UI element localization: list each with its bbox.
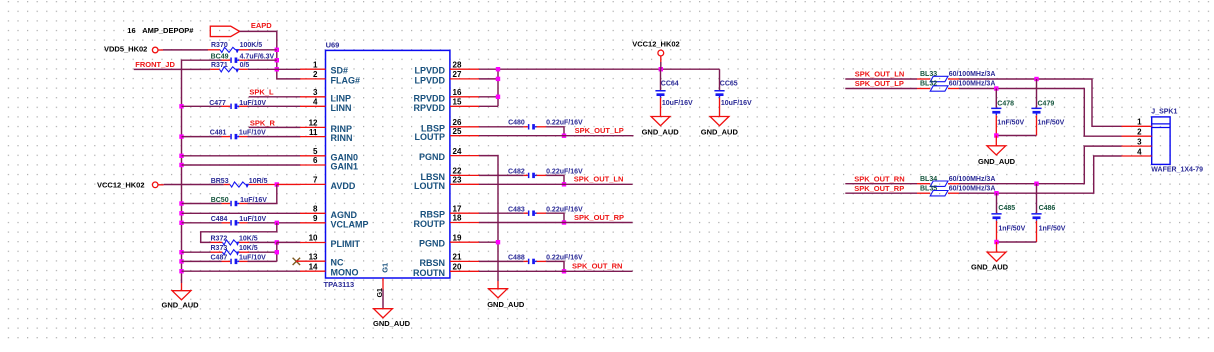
resistor R370 100K/5 xyxy=(208,42,262,53)
no-connect X on pin13 NC xyxy=(293,258,301,265)
svg-text:0/5: 0/5 xyxy=(240,62,250,69)
svg-text:20: 20 xyxy=(453,263,462,272)
GND bus vertical wire xyxy=(182,60,222,291)
svg-text:SD#: SD# xyxy=(331,66,349,76)
wire BL34 to connector pin3 xyxy=(959,146,1122,184)
connector pin 3 xyxy=(1122,137,1152,146)
wire R372 to PLIMIT node xyxy=(249,241,276,243)
svg-text:EAPD: EAPD xyxy=(251,21,272,30)
wire BC50 left to GND bus xyxy=(182,203,222,205)
capacitor C482 0.22uF/16V xyxy=(479,168,583,178)
svg-text:C480: C480 xyxy=(508,120,525,127)
wire ROUTN pin20 stub xyxy=(479,270,633,272)
svg-text:BC49: BC49 xyxy=(211,53,229,60)
svg-text:1nF/50V: 1nF/50V xyxy=(1039,225,1066,232)
svg-text:8: 8 xyxy=(313,205,318,214)
svg-text:GND_AUD: GND_AUD xyxy=(487,300,525,309)
svg-text:1uF/10V: 1uF/10V xyxy=(239,255,266,262)
svg-text:ROUTP: ROUTP xyxy=(414,219,446,229)
junction dots LPVDD rail xyxy=(496,67,663,99)
svg-text:PGND: PGND xyxy=(419,152,446,162)
pin 7 AVDD xyxy=(300,176,356,191)
svg-text:G1: G1 xyxy=(380,263,389,273)
wire LPVDD rail to VCC12 xyxy=(479,69,720,106)
svg-text:60/100MHz/3A: 60/100MHz/3A xyxy=(949,176,996,183)
capacitor C484 1uF/10V xyxy=(211,216,267,225)
junction dot PLIMIT node xyxy=(275,240,279,244)
wire joining C485 C486 bottoms xyxy=(997,241,1037,243)
svg-text:25: 25 xyxy=(453,127,462,136)
capacitor BC50 1uF/16V xyxy=(211,197,268,206)
pin 26 LBSP xyxy=(421,118,479,133)
ferrite bead BL34 60/100MHz/3A xyxy=(917,176,995,186)
wire BL33 to connector pin1 xyxy=(959,79,1122,126)
svg-text:1: 1 xyxy=(1137,118,1142,127)
svg-text:C479: C479 xyxy=(1038,100,1055,107)
wire C477 left to GND bus xyxy=(182,105,222,107)
wire AVDD to pin7 xyxy=(277,183,301,185)
svg-text:3: 3 xyxy=(1137,137,1142,146)
svg-text:60/100MHz/3A: 60/100MHz/3A xyxy=(949,81,996,88)
svg-text:AVDD: AVDD xyxy=(331,181,356,191)
wire SPK_OUT_LP to BL32 xyxy=(845,88,917,90)
svg-text:SPK_OUT_RP: SPK_OUT_RP xyxy=(574,213,624,222)
svg-text:VDD5_HK02: VDD5_HK02 xyxy=(104,44,147,53)
ground GND_AUD under C485 xyxy=(971,252,1009,272)
wire C487 right to PLIMIT vertical xyxy=(248,260,277,262)
svg-text:5: 5 xyxy=(313,147,318,156)
pin 28 LPVDD xyxy=(414,60,479,75)
junction dot C485 ground node xyxy=(994,240,998,244)
svg-text:21: 21 xyxy=(453,253,462,262)
svg-text:18: 18 xyxy=(453,214,462,223)
wire R370 to EAPD bus xyxy=(249,49,277,51)
svg-text:19: 19 xyxy=(453,233,462,242)
pin 18 ROUTP xyxy=(414,214,480,229)
pin 1 SD# xyxy=(300,60,348,75)
svg-text:SPK_OUT_RN: SPK_OUT_RN xyxy=(572,262,622,271)
svg-text:LOUTP: LOUTP xyxy=(415,132,446,142)
junction dot C478 tap xyxy=(994,86,998,90)
pin 9 VCLAMP xyxy=(300,214,369,229)
pin 21 RBSN xyxy=(419,253,479,268)
wire AVDD down to BC50 xyxy=(248,185,277,204)
svg-text:C485: C485 xyxy=(998,205,1015,212)
wire BL35 to connector pin4 xyxy=(959,156,1122,193)
pin 19 PGND xyxy=(419,233,479,248)
svg-text:R372: R372 xyxy=(211,236,228,243)
svg-text:GND_AUD: GND_AUD xyxy=(701,127,739,136)
resistor BR53 10R/5 xyxy=(211,178,277,188)
svg-text:GND_AUD: GND_AUD xyxy=(642,127,680,136)
ground GND_AUD left bus xyxy=(162,291,200,310)
svg-text:LOUTN: LOUTN xyxy=(414,181,445,191)
junction dot C478 ground node xyxy=(994,133,998,137)
junction dot ROUTP xyxy=(562,220,566,224)
svg-text:RPVDD: RPVDD xyxy=(413,93,445,103)
svg-text:SPK_R: SPK_R xyxy=(250,118,276,127)
wire BL32 to connector pin2 xyxy=(959,89,1122,137)
power node VDD5_HK02 xyxy=(104,44,163,53)
junction dot R373 node xyxy=(275,250,279,254)
resistor R372 10K/5 xyxy=(211,236,258,246)
svg-text:10K/5: 10K/5 xyxy=(239,245,258,252)
svg-text:SPK_OUT_RP: SPK_OUT_RP xyxy=(854,184,904,193)
svg-text:16: 16 xyxy=(453,88,462,97)
svg-text:10: 10 xyxy=(309,234,318,243)
capacitor C480 0.22uF/16V xyxy=(479,120,583,130)
wire AGND pin8 to GND bus xyxy=(182,212,301,214)
wire VCLAMP loop down to R372 xyxy=(201,223,277,243)
svg-text:AGND: AGND xyxy=(331,210,358,220)
svg-text:NC: NC xyxy=(331,258,344,268)
wire GAIN1 pin6 to GND bus xyxy=(182,164,301,166)
svg-text:AMP_DEPOP#: AMP_DEPOP# xyxy=(142,26,194,35)
pin 23 LOUTN xyxy=(414,176,479,191)
svg-text:C482: C482 xyxy=(508,168,525,175)
svg-text:LINN: LINN xyxy=(331,103,352,113)
junction dots on EAPD bus xyxy=(275,48,279,72)
svg-text:LPVDD: LPVDD xyxy=(414,75,445,85)
junction dot C486 tap xyxy=(1034,182,1038,186)
svg-text:MONO: MONO xyxy=(331,268,359,278)
ground GND_AUD under CC64 xyxy=(642,117,680,137)
capacitor CC65 10uF/16V xyxy=(714,69,752,116)
svg-text:R373: R373 xyxy=(211,245,228,252)
svg-text:26: 26 xyxy=(453,118,462,127)
svg-text:12: 12 xyxy=(309,119,318,128)
pin 5 GAIN0 xyxy=(300,147,358,162)
svg-text:C481: C481 xyxy=(210,129,227,136)
svg-text:GND_AUD: GND_AUD xyxy=(971,263,1009,272)
svg-text:LINP: LINP xyxy=(331,93,352,103)
pin 25 LOUTP xyxy=(415,127,480,142)
capacitor C477 1uF/10V xyxy=(209,100,266,109)
svg-text:C483: C483 xyxy=(508,206,525,213)
wire R371 to pin1 SD# xyxy=(248,68,301,70)
svg-text:100K/5: 100K/5 xyxy=(240,42,263,49)
pin 6 GAIN1 xyxy=(300,156,358,171)
wire SPK_R to pin12 RINP xyxy=(249,126,301,128)
svg-text:TPA3113: TPA3113 xyxy=(324,280,355,289)
pin 8 AGND xyxy=(300,205,357,220)
svg-text:6: 6 xyxy=(313,156,318,165)
pin 22 LBSN xyxy=(421,167,480,182)
svg-text:CC65: CC65 xyxy=(720,81,738,88)
svg-text:14: 14 xyxy=(309,262,318,271)
capacitor BC49 4.7uF/6.3V xyxy=(211,53,275,63)
wire R373 left to GND bus xyxy=(182,251,211,253)
pin 11 RINN xyxy=(300,128,353,143)
capacitor C485 1nF/50V xyxy=(991,193,1025,242)
wire VCC12 to BR53 xyxy=(164,184,224,186)
svg-text:15: 15 xyxy=(453,98,462,107)
power node VCC12_HK02 top xyxy=(632,39,680,69)
svg-text:GND_AUD: GND_AUD xyxy=(373,319,411,328)
wire C488 to ROUTN net xyxy=(546,261,564,271)
svg-text:3: 3 xyxy=(313,88,318,97)
capacitor C488 0.22uF/16V xyxy=(479,255,583,265)
svg-text:SPK_L: SPK_L xyxy=(249,88,274,97)
svg-text:PLIMIT: PLIMIT xyxy=(331,239,361,249)
svg-text:FRONT_JD: FRONT_JD xyxy=(135,60,175,69)
off-page reference 16 AMP_DEPOP# xyxy=(127,26,194,35)
svg-text:BL34: BL34 xyxy=(920,176,937,183)
svg-text:4: 4 xyxy=(313,98,318,107)
svg-text:BL33: BL33 xyxy=(920,71,937,78)
junction dot AVDD node xyxy=(275,182,279,186)
wire C481 left to GND bus xyxy=(182,136,222,138)
ground GND_AUD under G1 xyxy=(373,309,411,329)
svg-text:RINN: RINN xyxy=(331,133,353,143)
svg-text:PGND: PGND xyxy=(419,239,446,249)
wire net EAPD from flag to pin2 FLAG# xyxy=(240,31,301,79)
pin 27 LPVDD xyxy=(414,70,479,85)
svg-text:4.7uF/6.3V: 4.7uF/6.3V xyxy=(240,53,275,60)
op-amp U69 TPA3113 body xyxy=(324,41,450,290)
wire GAIN0 pin5 to GND bus xyxy=(182,155,301,157)
pin 24 PGND xyxy=(419,147,479,162)
svg-text:VCLAMP: VCLAMP xyxy=(331,219,369,229)
wire C484 left to GND bus xyxy=(182,222,222,224)
connector J_SPK1 WAFER_1X4-79 xyxy=(1151,109,1203,174)
pin 20 ROUTN xyxy=(413,263,479,278)
svg-text:U69: U69 xyxy=(326,41,340,50)
wire C481 right to pin11 RINN xyxy=(248,136,301,138)
junction dot ROUTN xyxy=(562,269,566,273)
wire C487 left to GND bus xyxy=(182,260,222,262)
ferrite bead BL32 60/100MHz/3A xyxy=(917,81,995,92)
svg-text:CC64: CC64 xyxy=(661,81,679,88)
svg-text:LPVDD: LPVDD xyxy=(414,66,445,76)
wire SPK_OUT_RP to BL35 xyxy=(845,192,917,194)
wire MONO pin14 to GND bus xyxy=(182,270,301,272)
svg-text:RBSN: RBSN xyxy=(419,258,445,268)
svg-text:28: 28 xyxy=(453,60,462,69)
svg-text:24: 24 xyxy=(453,147,462,156)
capacitor CC64 10uF/16V xyxy=(655,69,693,116)
svg-text:SPK_OUT_LN: SPK_OUT_LN xyxy=(855,70,905,79)
pin 4 LINN xyxy=(300,98,352,113)
svg-text:BL32: BL32 xyxy=(920,81,937,88)
wire ROUTP pin18 stub xyxy=(479,222,633,224)
svg-text:SPK_OUT_LP: SPK_OUT_LP xyxy=(855,79,904,88)
svg-text:10K/5: 10K/5 xyxy=(239,236,258,243)
pin 2 FLAG# xyxy=(300,70,360,85)
pin 12 RINP xyxy=(300,119,352,134)
svg-text:1nF/50V: 1nF/50V xyxy=(997,120,1024,127)
svg-text:J_SPK1: J_SPK1 xyxy=(1151,109,1177,116)
svg-text:ROUTN: ROUTN xyxy=(413,268,445,278)
svg-text:10uF/16V: 10uF/16V xyxy=(662,100,693,107)
ferrite bead BL33 60/100MHz/3A xyxy=(917,71,995,82)
svg-text:23: 23 xyxy=(453,176,462,185)
wire down to ground C478 xyxy=(995,136,997,146)
svg-text:60/100MHz/3A: 60/100MHz/3A xyxy=(949,71,996,78)
ground GND_AUD under CC65 xyxy=(701,117,739,137)
wire down to ground C485 xyxy=(996,242,998,252)
svg-text:RPVDD: RPVDD xyxy=(413,103,445,113)
pin 10 PLIMIT xyxy=(300,234,360,249)
svg-text:C487: C487 xyxy=(211,255,228,262)
svg-text:1nF/50V: 1nF/50V xyxy=(998,225,1025,232)
svg-text:VCC12_HK02: VCC12_HK02 xyxy=(97,180,145,189)
power node VCC12_HK02 left xyxy=(97,180,164,189)
capacitor C483 0.22uF/16V xyxy=(479,206,583,216)
svg-text:16: 16 xyxy=(127,26,135,35)
wire SPK_OUT_RN to BL34 xyxy=(845,183,917,185)
svg-text:C478: C478 xyxy=(997,100,1014,107)
capacitor C481 1uF/10V xyxy=(210,129,266,139)
svg-text:0.22uF/16V: 0.22uF/16V xyxy=(546,255,583,262)
resistor R373 10K/5 xyxy=(211,245,258,255)
svg-text:C488: C488 xyxy=(508,255,525,262)
pin 16 RPVDD xyxy=(413,88,479,103)
svg-text:C486: C486 xyxy=(1039,205,1056,212)
wire FRONT_JD to R371 xyxy=(134,68,211,70)
resistor R371 0/5 xyxy=(210,62,249,72)
pin 15 RPVDD xyxy=(413,98,479,113)
svg-text:VCC12_HK02: VCC12_HK02 xyxy=(632,39,680,48)
pin 3 LINP xyxy=(300,88,351,103)
wire C483 to ROUTP net xyxy=(546,213,564,222)
junction dot C479 tap xyxy=(1034,77,1038,81)
wire C482 to LOUTN net xyxy=(546,175,564,184)
wire VDD5_HK02 to R370 xyxy=(163,49,208,51)
wire C477 right to pin4 LINN xyxy=(248,105,301,107)
connector pin 2 xyxy=(1122,128,1152,137)
svg-text:2: 2 xyxy=(1137,128,1142,137)
svg-text:1nF/50V: 1nF/50V xyxy=(1038,120,1065,127)
junction dot LOUTP xyxy=(562,134,566,138)
ferrite bead BL35 60/100MHz/3A xyxy=(917,186,995,196)
ground GND_AUD under C478 xyxy=(978,146,1016,166)
wire R373 right and vertical to PLIMIT xyxy=(249,242,276,261)
pin 14 MONO xyxy=(300,262,359,277)
capacitor C487 1uF/10V xyxy=(211,255,267,265)
svg-text:60/100MHz/3A: 60/100MHz/3A xyxy=(949,186,996,193)
svg-text:22: 22 xyxy=(453,167,462,176)
svg-text:7: 7 xyxy=(313,176,318,185)
svg-text:13: 13 xyxy=(309,252,318,261)
svg-text:FLAG#: FLAG# xyxy=(331,75,361,85)
off-page flag EAPD xyxy=(210,21,272,37)
svg-text:11: 11 xyxy=(309,128,318,137)
wire PLIMIT node to pin10 xyxy=(277,241,301,243)
wire G1 to ground xyxy=(382,290,384,309)
svg-text:10uF/16V: 10uF/16V xyxy=(721,100,752,107)
svg-text:4: 4 xyxy=(1137,147,1142,156)
svg-text:9: 9 xyxy=(313,214,318,223)
junction dot LOUTN xyxy=(562,182,566,186)
connector pin 4 xyxy=(1122,147,1152,156)
junction dot VCLAMP node xyxy=(275,221,279,225)
capacitor C479 1nF/50V xyxy=(1031,79,1064,136)
wire PGND pin24 to ground xyxy=(479,156,498,289)
ground GND_AUD PGND xyxy=(487,289,525,309)
svg-text:SPK_OUT_LP: SPK_OUT_LP xyxy=(575,126,624,135)
svg-text:27: 27 xyxy=(453,70,462,79)
svg-text:1: 1 xyxy=(313,60,318,69)
wire C484 right to pin9 VCLAMP xyxy=(248,222,301,224)
svg-text:WAFER_1X4-79: WAFER_1X4-79 xyxy=(1151,167,1203,174)
wire joining C478 C479 bottoms xyxy=(996,135,1036,137)
wire C480 to LOUTP net xyxy=(546,127,564,136)
connector pin 1 xyxy=(1122,118,1152,127)
svg-text:2: 2 xyxy=(313,70,318,79)
junction dot C485 tap xyxy=(994,191,998,195)
svg-text:GAIN1: GAIN1 xyxy=(331,162,359,172)
capacitor C478 1nF/50V xyxy=(991,89,1024,136)
svg-text:GND_AUD: GND_AUD xyxy=(978,157,1016,166)
wire SPK_L to pin3 LINP xyxy=(249,96,301,98)
junction dots on GND bus xyxy=(179,104,183,273)
wire SPK_OUT_LN to BL33 xyxy=(845,78,917,80)
junction dot PGND pin19 xyxy=(496,240,500,244)
pin 13 NC xyxy=(296,252,344,267)
svg-text:GND_AUD: GND_AUD xyxy=(162,301,200,310)
wire LOUTN pin23 stub xyxy=(479,183,633,185)
svg-text:SPK_OUT_LN: SPK_OUT_LN xyxy=(574,175,624,184)
capacitor C486 1nF/50V xyxy=(1031,184,1065,242)
pin G1 bottom xyxy=(377,263,389,298)
svg-text:1uF/10V: 1uF/10V xyxy=(239,129,266,136)
svg-text:BL35: BL35 xyxy=(920,186,937,193)
wire LOUTP pin25 stub xyxy=(479,135,634,137)
pin 17 RBSP xyxy=(420,204,479,219)
wire BC49 right to EAPD bus xyxy=(248,59,277,61)
svg-text:17: 17 xyxy=(453,204,462,213)
svg-text:SPK_OUT_RN: SPK_OUT_RN xyxy=(854,174,904,183)
